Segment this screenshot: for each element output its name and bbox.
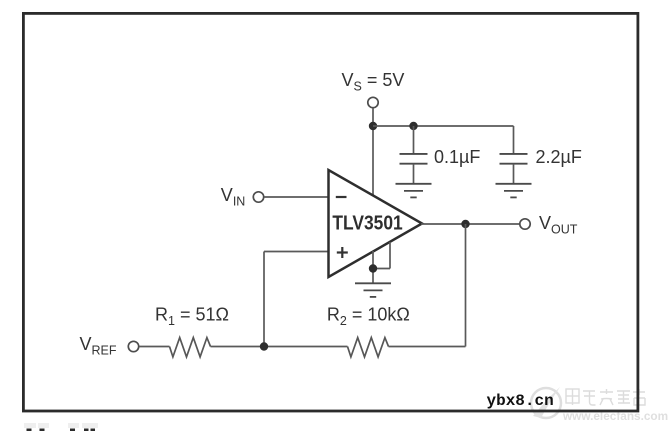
- wire R2 to feedback: [389, 346, 466, 348]
- ground C1: [396, 184, 432, 198]
- terminal VS: [368, 97, 378, 107]
- wire VREF to R1: [139, 346, 170, 348]
- watermark elecfans chinese characters: [566, 389, 645, 405]
- node C1 junction: [409, 122, 417, 130]
- capacitor C2 2.2uF: [500, 154, 528, 164]
- svg-text:ybx8.cn: ybx8.cn: [487, 392, 554, 410]
- wire non-inverting input horizontal: [264, 251, 329, 253]
- wire SDN pin vertical: [389, 242, 391, 269]
- wire top rail: [373, 125, 514, 127]
- resistor R2: [348, 338, 389, 357]
- terminal VOUT: [520, 219, 530, 229]
- wire C2 top lead: [513, 126, 515, 153]
- watermark elecfans logo: [531, 387, 561, 418]
- node output junction: [461, 220, 469, 228]
- wire R1 to node A: [211, 346, 348, 348]
- node SDN junction: [369, 264, 377, 272]
- terminal VREF: [128, 341, 138, 351]
- svg-text:VS = 5V: VS = 5V: [342, 70, 405, 93]
- capacitor C1 0.1uF: [400, 154, 428, 164]
- pin - inverting input marker: [336, 196, 347, 198]
- svg-text:R1 = 51Ω: R1 = 51Ω: [155, 305, 229, 328]
- ground U1: [355, 283, 391, 297]
- svg-text:2.2µF: 2.2µF: [536, 147, 582, 167]
- wire C1 top lead: [413, 126, 415, 153]
- wire C2 bottom lead: [513, 164, 515, 184]
- svg-text:R2 = 10kΩ: R2 = 10kΩ: [327, 305, 410, 328]
- wire SDN pin horizontal: [373, 268, 390, 270]
- svg-text:TLV3501: TLV3501: [332, 213, 402, 235]
- wire U1 V- lead: [372, 251, 374, 283]
- node A R1/R2 junction: [260, 342, 268, 350]
- wire VS vertical: [372, 108, 374, 197]
- node VS junction: [369, 122, 377, 130]
- wire VIN to inverting input: [264, 196, 329, 198]
- wire C1 bottom lead: [413, 164, 415, 184]
- pin + non-inverting input marker: [337, 247, 348, 258]
- caption remnants bottom-left: [27, 429, 96, 431]
- op-amp U1 TLV3501: [329, 170, 423, 277]
- ground C2: [496, 184, 532, 198]
- resistor R1: [170, 338, 211, 357]
- terminal VIN: [253, 192, 263, 202]
- wire non-inverting input vertical: [263, 252, 265, 347]
- svg-text:0.1µF: 0.1µF: [434, 147, 480, 167]
- wire feedback vertical: [465, 224, 467, 347]
- wire output: [421, 223, 520, 225]
